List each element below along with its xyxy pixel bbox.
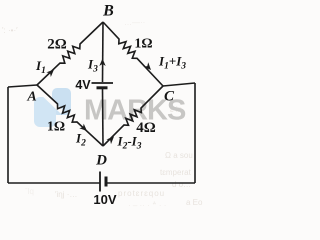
- resistor 4ohm branch D-C: [103, 86, 163, 146]
- svg-text:Ω a sou: Ω a sou: [165, 151, 193, 160]
- wire: outer left edge: [7, 87, 9, 183]
- svg-text:d ο…: d ο…: [172, 180, 191, 189]
- svg-text:4V: 4V: [75, 78, 91, 92]
- current arrow I2: [79, 124, 87, 131]
- svg-text:а Εο: а Εο: [186, 198, 203, 207]
- wire: middle branch B to 4V battery: [102, 22, 105, 82]
- svg-text:10V: 10V: [93, 192, 116, 207]
- wire: outer right edge: [194, 83, 196, 183]
- svg-text:1Ω: 1Ω: [134, 37, 152, 52]
- svg-text:tɛmperat: tɛmperat: [160, 168, 192, 177]
- resistor 1ohm branch A-D: [37, 85, 103, 146]
- svg-text:′іηј ·…: ′іηј ·…: [55, 190, 77, 199]
- svg-text:C: C: [164, 89, 175, 105]
- svg-text:B: B: [102, 3, 114, 20]
- current arrow I2-I3: [106, 137, 114, 145]
- wire: outer bottom, left segment: [8, 182, 100, 184]
- svg-text:…—··: …—··: [124, 18, 145, 27]
- svg-text:2Ω: 2Ω: [47, 37, 67, 53]
- svg-text:A: A: [26, 90, 36, 105]
- battery 4V: [92, 83, 114, 88]
- current arrow I3: [99, 59, 105, 67]
- battery 10V: [100, 172, 106, 192]
- svg-text:1Ω: 1Ω: [47, 120, 65, 135]
- current arrow I1+I3: [144, 62, 152, 70]
- resistor 2ohm branch A-B: [37, 22, 103, 85]
- current arrow I1: [46, 70, 54, 78]
- svg-text:· – ·· · ؞ · ·: · – ·· · ؞ · ·: [128, 201, 166, 210]
- wire: outer bottom, right segment: [106, 182, 195, 184]
- svg-text:D: D: [95, 153, 107, 169]
- wire: C to top-right corner: [163, 83, 195, 86]
- svg-text:4Ω: 4Ω: [136, 120, 156, 136]
- wire: A to top-left corner: [8, 85, 37, 87]
- svg-text:prοtɛrɛqοu: prοtɛrɛqοu: [118, 189, 165, 198]
- resistor 1ohm branch B-C: [103, 22, 163, 86]
- svg-text:ˉlq: ˉlq: [25, 187, 34, 196]
- svg-text:': ·•·′: ': ·•·′: [2, 26, 18, 35]
- wire: middle branch 4V battery to D: [102, 89, 105, 146]
